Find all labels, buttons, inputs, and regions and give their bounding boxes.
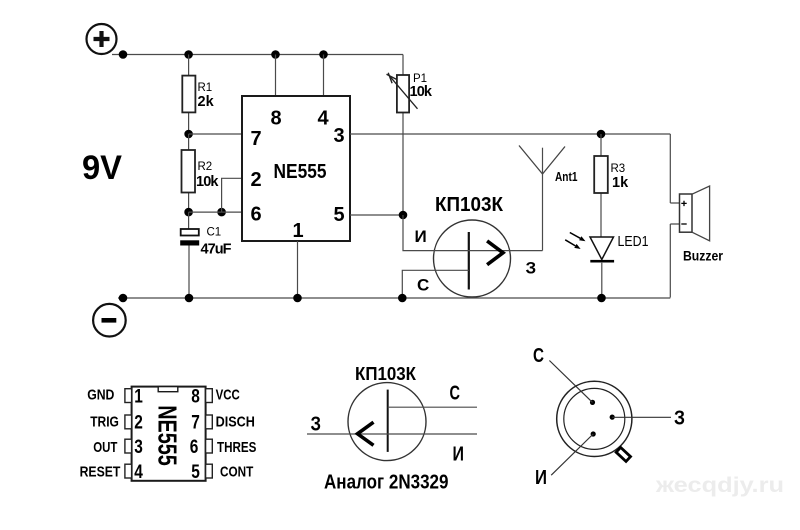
svg-text:DISCH: DISCH: [216, 414, 255, 431]
antenna Ant1: [519, 146, 578, 251]
wire pin7: [189, 133, 242, 135]
svg-text:OUT: OUT: [93, 439, 117, 456]
package lead line З: [612, 416, 671, 418]
svg-text:жесqdjу.ru: жесqdjу.ru: [655, 474, 784, 497]
svg-text:С: С: [417, 276, 429, 295]
node bottom rail drain: [398, 294, 407, 303]
svg-text:И: И: [415, 227, 427, 246]
svg-text:1: 1: [134, 386, 143, 407]
node bottom rail LED: [597, 294, 606, 303]
svg-text:NE555: NE555: [274, 161, 327, 183]
svg-text:9V: 9V: [82, 149, 122, 187]
pinout pin 7 box: [206, 415, 213, 429]
package outer circle: [557, 381, 632, 456]
svg-text:THRES: THRES: [217, 439, 256, 456]
pinout pin 5 box: [206, 464, 213, 478]
wire pin5: [350, 214, 403, 216]
wire top rail: [112, 54, 403, 56]
wire bottom rail: [118, 297, 670, 299]
svg-text:3: 3: [333, 125, 344, 147]
svg-text:8: 8: [191, 386, 200, 407]
node R2/C1/pin6 junction: [184, 208, 193, 217]
potentiometer P1: [387, 55, 433, 216]
svg-text:4: 4: [317, 107, 329, 129]
package lead line С: [549, 361, 592, 403]
svg-text:VCC: VCC: [216, 386, 240, 403]
svg-text:З: З: [674, 408, 685, 430]
node top rail R1: [184, 50, 193, 59]
svg-text:6: 6: [190, 437, 199, 458]
node top rail pin4: [319, 50, 328, 59]
node bottom rail pin1: [293, 294, 302, 303]
svg-text:КП103К: КП103К: [355, 364, 417, 384]
package pin dot З: [610, 415, 615, 420]
svg-text:Ant1: Ant1: [555, 170, 578, 184]
pinout pin 8 box: [206, 389, 213, 403]
svg-text:1: 1: [292, 220, 303, 242]
svg-text:1k: 1k: [612, 175, 629, 191]
svg-text:6: 6: [250, 203, 261, 225]
svg-text:7: 7: [191, 413, 200, 434]
transistor symbol body: [307, 383, 477, 461]
package pin dot И: [591, 431, 596, 436]
svg-text:КП103К: КП103К: [435, 194, 504, 216]
node pin3/R3 junction: [597, 130, 606, 139]
svg-text:R2: R2: [198, 161, 213, 173]
svg-text:8: 8: [270, 107, 281, 129]
transistor Q1 КП103К: [402, 194, 542, 298]
resistor R3: [594, 134, 629, 237]
wire pin2: [222, 178, 242, 212]
svg-text:И: И: [453, 443, 465, 465]
package inner circle: [564, 388, 625, 449]
LED LED1: [565, 233, 648, 299]
svg-text:R3: R3: [611, 163, 626, 175]
node bottom rail C1: [185, 294, 194, 303]
svg-text:47uF: 47uF: [201, 242, 232, 258]
svg-text:TRIG: TRIG: [90, 414, 119, 431]
svg-text:7: 7: [250, 128, 261, 150]
svg-text:R1: R1: [198, 82, 213, 94]
node pin2 drop junction: [217, 208, 226, 217]
wire buzzer stubs: [670, 203, 679, 224]
package pin dot С: [590, 400, 595, 405]
svg-text:З: З: [526, 259, 537, 278]
svg-text:5: 5: [333, 204, 344, 226]
svg-text:4: 4: [134, 462, 143, 483]
wire right vertical from pin3 to buzzer: [669, 134, 671, 298]
svg-text:10k: 10k: [410, 84, 433, 100]
svg-text:CONT: CONT: [220, 463, 253, 480]
wire pin3 output: [350, 133, 670, 135]
svg-text:LED1: LED1: [618, 233, 649, 250]
svg-text:2: 2: [250, 169, 261, 191]
svg-text:10k: 10k: [196, 174, 219, 190]
svg-text:З: З: [311, 414, 322, 436]
battery negative terminal: [93, 304, 126, 337]
pinout pin 6 box: [206, 439, 213, 453]
svg-text:Buzzer: Buzzer: [683, 248, 723, 264]
node R1/R2/pin7 junction: [184, 130, 193, 139]
svg-text:NE555: NE555: [153, 405, 183, 466]
pinout pin 3 box: [125, 439, 132, 453]
svg-text:С: С: [450, 383, 461, 405]
svg-text:И: И: [535, 467, 547, 489]
IC pinout NE555 body: [132, 387, 206, 481]
svg-text:5: 5: [191, 462, 200, 483]
wire pin1 to ground rail: [297, 241, 299, 298]
svg-text:RESET: RESET: [80, 463, 121, 480]
svg-text:С: С: [533, 345, 544, 367]
capacitor C1: [180, 212, 231, 298]
node pin5/P1/source junction: [399, 211, 408, 220]
resistor R1: [182, 55, 214, 135]
svg-text:GND: GND: [87, 386, 114, 403]
wire pin6: [189, 211, 242, 213]
wire pin4 to rail: [323, 55, 325, 97]
resistor R2: [182, 134, 220, 212]
package key tab: [616, 447, 630, 461]
node top rail pin8: [271, 50, 280, 59]
svg-text:C1: C1: [207, 227, 222, 239]
pinout pin 4 box: [125, 464, 132, 478]
node bottom rail left: [119, 294, 128, 303]
svg-text:2k: 2k: [198, 94, 215, 110]
package lead line И: [551, 434, 593, 475]
pinout pin 1 box: [125, 389, 132, 403]
svg-text:3: 3: [134, 437, 143, 458]
pinout pin 2 box: [125, 415, 132, 429]
battery positive terminal: [87, 24, 117, 54]
wire pin8 to rail: [275, 55, 277, 97]
op-amp timer U1 NE555 body: [242, 96, 350, 241]
svg-text:2: 2: [134, 413, 143, 434]
buzzer: [680, 186, 724, 264]
svg-text:Аналог 2N3329: Аналог 2N3329: [324, 472, 449, 494]
node top rail left: [119, 50, 128, 59]
